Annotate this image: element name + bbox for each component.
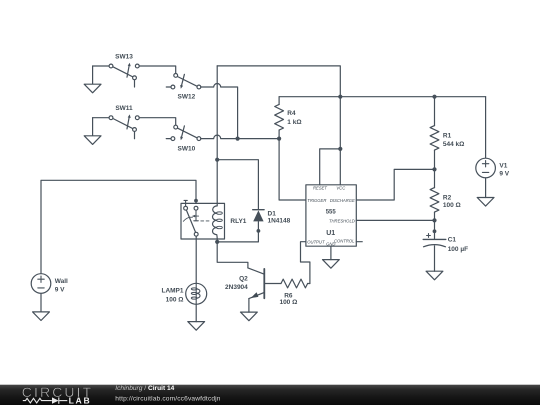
wire OUTPUT to R6 <box>301 242 310 284</box>
wire to D1 cathode <box>217 160 258 210</box>
svg-text:100 µF: 100 µF <box>448 246 468 253</box>
svg-text:SW11: SW11 <box>115 105 133 112</box>
svg-text:R2: R2 <box>443 195 452 202</box>
resistor R6 <box>279 279 309 306</box>
switch SW11 <box>109 105 139 139</box>
wire GND pin of U1 <box>330 246 332 259</box>
wire R4 bottom to TRIGGER <box>279 139 306 200</box>
wire CONTROL stub <box>356 241 362 243</box>
ground GND-SW11 <box>84 118 101 145</box>
wire VCC pin <box>339 97 341 185</box>
wire SW11 common to ground <box>93 117 110 119</box>
svg-text:TRIGGER: TRIGGER <box>307 198 326 203</box>
svg-text:9 V: 9 V <box>55 286 65 293</box>
ground GND-Q2 <box>241 312 258 321</box>
svg-text:http://circuitlab.com/cc6vawfd: http://circuitlab.com/cc6vawfdtcdjn <box>115 395 220 402</box>
ground GND-Wall <box>33 312 50 321</box>
555 timer U1 <box>306 185 356 247</box>
svg-text:U1: U1 <box>326 230 335 237</box>
wire SW11 throw to SW10 top <box>139 118 176 125</box>
wire SW13 throw to SW12 top <box>139 66 176 73</box>
switch SW10 <box>166 125 201 152</box>
ground GND-LAMP1 <box>188 322 205 331</box>
junction D1 branch <box>215 158 219 162</box>
wire V1 bottom <box>485 178 487 198</box>
svg-text:OUTPUT: OUTPUT <box>307 239 325 244</box>
footer title text <box>115 385 220 402</box>
svg-text:LAMP1: LAMP1 <box>161 288 183 295</box>
diode D1 <box>253 210 291 233</box>
svg-text:544 kΩ: 544 kΩ <box>443 141 464 148</box>
junction R1 top <box>432 95 436 99</box>
junction R2 bottom / THRESHOLD <box>432 218 436 222</box>
svg-text:100 Ω: 100 Ω <box>443 202 461 209</box>
junction R4 bottom <box>277 137 281 141</box>
wire LAMP1 bottom <box>195 304 197 321</box>
svg-text:DISCHARGE: DISCHARGE <box>330 198 355 203</box>
transistor Q2 <box>225 268 264 312</box>
wire VCC rail y=96.7 <box>279 96 486 98</box>
svg-text:C1: C1 <box>448 237 457 244</box>
capacitor C1 <box>423 220 468 271</box>
wire coil bottom to Q2 collector <box>217 242 248 268</box>
svg-text:Ichinburg / Ciruit 14: Ichinburg / Ciruit 14 <box>115 385 174 392</box>
svg-text:9 V: 9 V <box>499 171 509 178</box>
footer logo CIRCUIT LAB <box>22 384 93 405</box>
junction R1 bottom <box>432 167 436 171</box>
switch SW12 <box>166 74 201 101</box>
svg-text:RESET: RESET <box>313 186 327 191</box>
svg-text:D1: D1 <box>268 210 277 217</box>
svg-text:SW13: SW13 <box>115 53 133 60</box>
svg-text:Wall: Wall <box>55 278 68 285</box>
wire Q2 base to R6 <box>264 283 281 285</box>
wire Wall bottom <box>40 293 42 312</box>
wire THRESHOLD to R2 bottom <box>356 219 434 221</box>
svg-text:SW10: SW10 <box>178 145 196 152</box>
wire relay contact to LAMP1 <box>195 236 197 283</box>
switch SW13 <box>109 53 139 87</box>
resistor R2 <box>430 169 461 220</box>
svg-text:V1: V1 <box>499 163 507 170</box>
wire relay coil bottom junction <box>216 239 218 242</box>
svg-text:555: 555 <box>326 209 337 215</box>
svg-text:SW12: SW12 <box>178 94 196 101</box>
resistor R4 <box>275 97 302 139</box>
ground GND-V1 <box>477 198 494 207</box>
wire DISCHARGE to R1/R2 node <box>356 169 434 200</box>
svg-text:1 kΩ: 1 kΩ <box>287 119 301 126</box>
svg-text:100 Ω: 100 Ω <box>166 297 184 304</box>
lamp LAMP1 <box>161 283 206 304</box>
junction RESET/VCC <box>338 147 342 151</box>
wire V1 top <box>485 97 487 159</box>
resistor R1 <box>430 97 464 170</box>
wire top route to VCC rail <box>217 66 340 97</box>
svg-text:RLY1: RLY1 <box>230 218 246 225</box>
svg-text:1N4148: 1N4148 <box>268 217 291 224</box>
footer bar <box>0 385 540 405</box>
ground GND-SW13 <box>84 66 101 93</box>
svg-text:2N3904: 2N3904 <box>225 284 248 291</box>
wire vertical VCC riser x=217.2 (top wire to relay coil) <box>216 66 218 204</box>
relay RLY1 <box>181 199 247 239</box>
voltage source V1 <box>476 158 510 178</box>
wire SW13 common to ground <box>93 65 110 67</box>
svg-text:VCC: VCC <box>336 186 346 191</box>
wire RESET pin <box>320 149 341 185</box>
wire SW10 common to R4 bottom (hop over x=217.2) <box>201 135 279 139</box>
voltage source Wall <box>31 274 68 294</box>
svg-text:R1: R1 <box>443 133 452 140</box>
svg-text:LAB: LAB <box>69 396 92 405</box>
svg-text:THRESHOLD: THRESHOLD <box>329 219 355 224</box>
svg-text:100 Ω: 100 Ω <box>279 299 297 306</box>
junction at 237.6,138.6 <box>236 137 240 141</box>
svg-text:R4: R4 <box>287 110 296 117</box>
wire coil bottom to D1 anode <box>217 222 258 242</box>
wire SW12 common to junction at x=237.6 (hop over x=217.2) <box>201 84 238 139</box>
ground GND-C1 <box>426 271 443 280</box>
junction at 340.3,96.7 <box>338 95 342 99</box>
wire Wall top route to relay <box>41 180 196 273</box>
ground GND-U1 <box>323 260 340 269</box>
svg-text:CONTROL: CONTROL <box>334 239 355 244</box>
svg-text:Q2: Q2 <box>239 275 248 282</box>
